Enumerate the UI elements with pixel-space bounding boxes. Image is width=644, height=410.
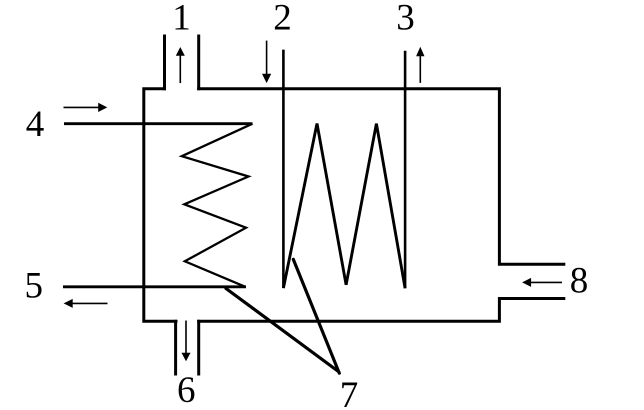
svg-text:4: 4: [26, 104, 45, 145]
svg-text:7: 7: [340, 375, 359, 410]
svg-text:2: 2: [273, 0, 292, 39]
svg-text:8: 8: [570, 261, 589, 302]
svg-text:3: 3: [396, 0, 415, 39]
svg-text:1: 1: [172, 0, 191, 39]
svg-text:5: 5: [24, 266, 43, 307]
svg-text:6: 6: [177, 370, 196, 410]
